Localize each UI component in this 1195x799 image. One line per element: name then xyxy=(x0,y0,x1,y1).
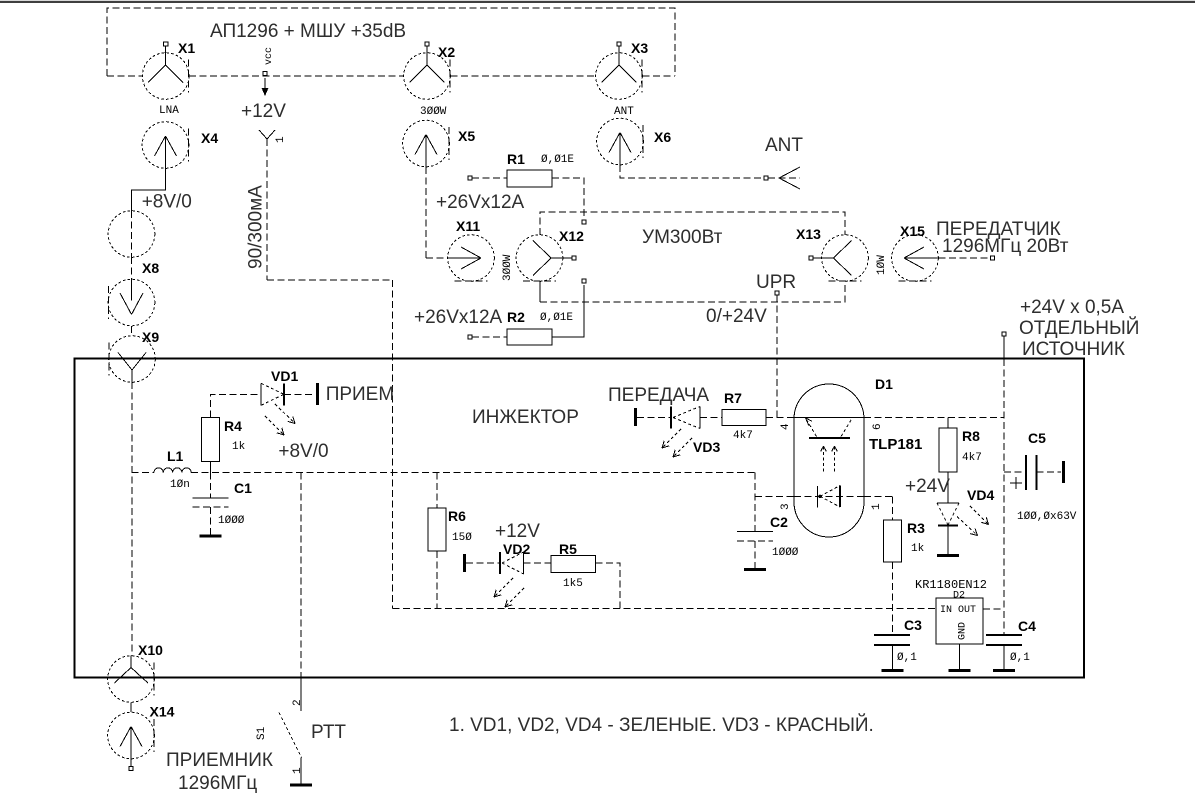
svg-text:OUT: OUT xyxy=(958,605,976,616)
svg-text:+26Vx12A: +26Vx12A xyxy=(414,307,503,328)
svg-text:1ØØØ: 1ØØØ xyxy=(218,515,245,527)
svg-text:ANT: ANT xyxy=(614,106,634,118)
svg-text:3ØØW: 3ØØW xyxy=(420,106,447,118)
svg-text:X13: X13 xyxy=(796,226,821,242)
svg-text:4k7: 4k7 xyxy=(733,430,753,442)
svg-text:C5: C5 xyxy=(1028,430,1046,446)
svg-text:1296МГц: 1296МГц xyxy=(178,773,257,794)
svg-text:1. VD1, VD2, VD4 - ЗЕЛЕНЫЕ. VD: 1. VD1, VD2, VD4 - ЗЕЛЕНЫЕ. VD3 - КРАСНЫ… xyxy=(449,714,874,736)
svg-text:C1: C1 xyxy=(234,480,252,496)
svg-text:VD4: VD4 xyxy=(967,487,994,503)
svg-text:X8: X8 xyxy=(142,260,159,276)
svg-text:GND: GND xyxy=(958,622,969,640)
svg-text:X10: X10 xyxy=(138,642,163,658)
svg-text:X4: X4 xyxy=(201,130,218,146)
svg-text:ИСТОЧНИК: ИСТОЧНИК xyxy=(1022,339,1125,360)
svg-text:X9: X9 xyxy=(142,329,159,345)
svg-text:1ØW: 1ØW xyxy=(876,255,888,275)
svg-text:Ø,1: Ø,1 xyxy=(1010,652,1030,664)
svg-text:R8: R8 xyxy=(962,428,980,444)
svg-text:VD2: VD2 xyxy=(503,541,530,557)
svg-text:R3: R3 xyxy=(907,520,925,536)
svg-text:C4: C4 xyxy=(1018,618,1036,634)
svg-text:+8V/0: +8V/0 xyxy=(278,441,328,462)
svg-text:ОТДЕЛЬНЫЙ: ОТДЕЛЬНЫЙ xyxy=(1019,317,1139,339)
svg-text:R4: R4 xyxy=(224,418,242,434)
svg-text:X12: X12 xyxy=(559,228,584,244)
svg-text:+12V: +12V xyxy=(495,521,540,542)
svg-text:15Ø: 15Ø xyxy=(452,532,472,544)
svg-text:1k: 1k xyxy=(911,543,925,555)
svg-text:1k: 1k xyxy=(232,441,246,453)
svg-text:0/+24V: 0/+24V xyxy=(706,306,767,327)
svg-text:ПЕРЕДАЧА: ПЕРЕДАЧА xyxy=(608,385,709,406)
svg-text:+8V/0: +8V/0 xyxy=(142,192,192,213)
svg-text:VD3: VD3 xyxy=(693,439,720,455)
svg-text:4k7: 4k7 xyxy=(962,452,982,464)
svg-text:X1: X1 xyxy=(178,40,195,56)
svg-text:1k5: 1k5 xyxy=(563,578,583,590)
svg-text:1Øn: 1Øn xyxy=(170,479,190,491)
svg-text:R5: R5 xyxy=(559,541,577,557)
svg-text:Ø,Ø1E: Ø,Ø1E xyxy=(540,312,573,324)
svg-text:Ø,1: Ø,1 xyxy=(897,652,917,664)
svg-text:LNA: LNA xyxy=(159,105,179,117)
svg-text:+24V: +24V xyxy=(905,476,950,497)
svg-text:D1: D1 xyxy=(875,376,893,392)
svg-text:ANT: ANT xyxy=(765,135,803,156)
svg-text:+12V: +12V xyxy=(241,101,286,122)
svg-text:1: 1 xyxy=(292,767,304,774)
svg-text:KR1180EN12: KR1180EN12 xyxy=(915,578,987,592)
svg-text:X6: X6 xyxy=(654,129,671,145)
svg-text:R6: R6 xyxy=(448,508,466,524)
svg-text:X2: X2 xyxy=(438,44,455,60)
svg-text:ИНЖЕКТОР: ИНЖЕКТОР xyxy=(472,407,579,428)
svg-text:X11: X11 xyxy=(456,218,480,234)
svg-text:UPR: UPR xyxy=(756,272,796,293)
svg-text:C3: C3 xyxy=(904,617,922,633)
svg-text:1: 1 xyxy=(275,136,287,143)
svg-text:РТТ: РТТ xyxy=(311,722,346,743)
svg-text:АП1296 + МШУ +35dB: АП1296 + МШУ +35dB xyxy=(210,21,406,42)
svg-text:vcc: vcc xyxy=(264,47,275,65)
svg-text:4: 4 xyxy=(780,423,792,430)
svg-text:R7: R7 xyxy=(724,390,742,406)
svg-text:90/300мА: 90/300мА xyxy=(246,185,267,269)
svg-text:Ø,Ø1E: Ø,Ø1E xyxy=(541,154,574,166)
svg-text:X15: X15 xyxy=(900,223,925,239)
svg-text:ПРИЕМ: ПРИЕМ xyxy=(326,384,395,405)
svg-text:1ØØØ: 1ØØØ xyxy=(772,547,799,559)
svg-text:1296МГц 20Вт: 1296МГц 20Вт xyxy=(942,236,1069,257)
svg-text:R2: R2 xyxy=(507,309,525,325)
svg-text:X3: X3 xyxy=(631,40,648,56)
svg-text:TLP181: TLP181 xyxy=(869,436,922,453)
svg-text:X14: X14 xyxy=(150,704,175,720)
svg-text:S1: S1 xyxy=(256,726,268,740)
svg-text:+26Vx12A: +26Vx12A xyxy=(436,192,525,213)
svg-text:2: 2 xyxy=(292,699,304,706)
svg-text:IN: IN xyxy=(940,605,952,616)
svg-text:3: 3 xyxy=(780,503,792,510)
svg-text:VD1: VD1 xyxy=(271,368,298,384)
svg-text:3ØØW: 3ØØW xyxy=(502,254,514,281)
svg-text:6: 6 xyxy=(872,423,884,430)
svg-text:ПРИЕМНИК: ПРИЕМНИК xyxy=(166,750,273,771)
svg-text:L1: L1 xyxy=(167,448,184,464)
svg-text:1: 1 xyxy=(871,503,883,510)
svg-text:C2: C2 xyxy=(770,514,788,530)
svg-text:1ØØ,Øх63V: 1ØØ,Øх63V xyxy=(1017,511,1077,523)
svg-text:+24V x 0,5A: +24V x 0,5A xyxy=(1020,297,1124,318)
svg-text:УМ300Вт: УМ300Вт xyxy=(642,227,723,248)
svg-text:R1: R1 xyxy=(507,151,525,167)
svg-text:X5: X5 xyxy=(458,128,475,144)
